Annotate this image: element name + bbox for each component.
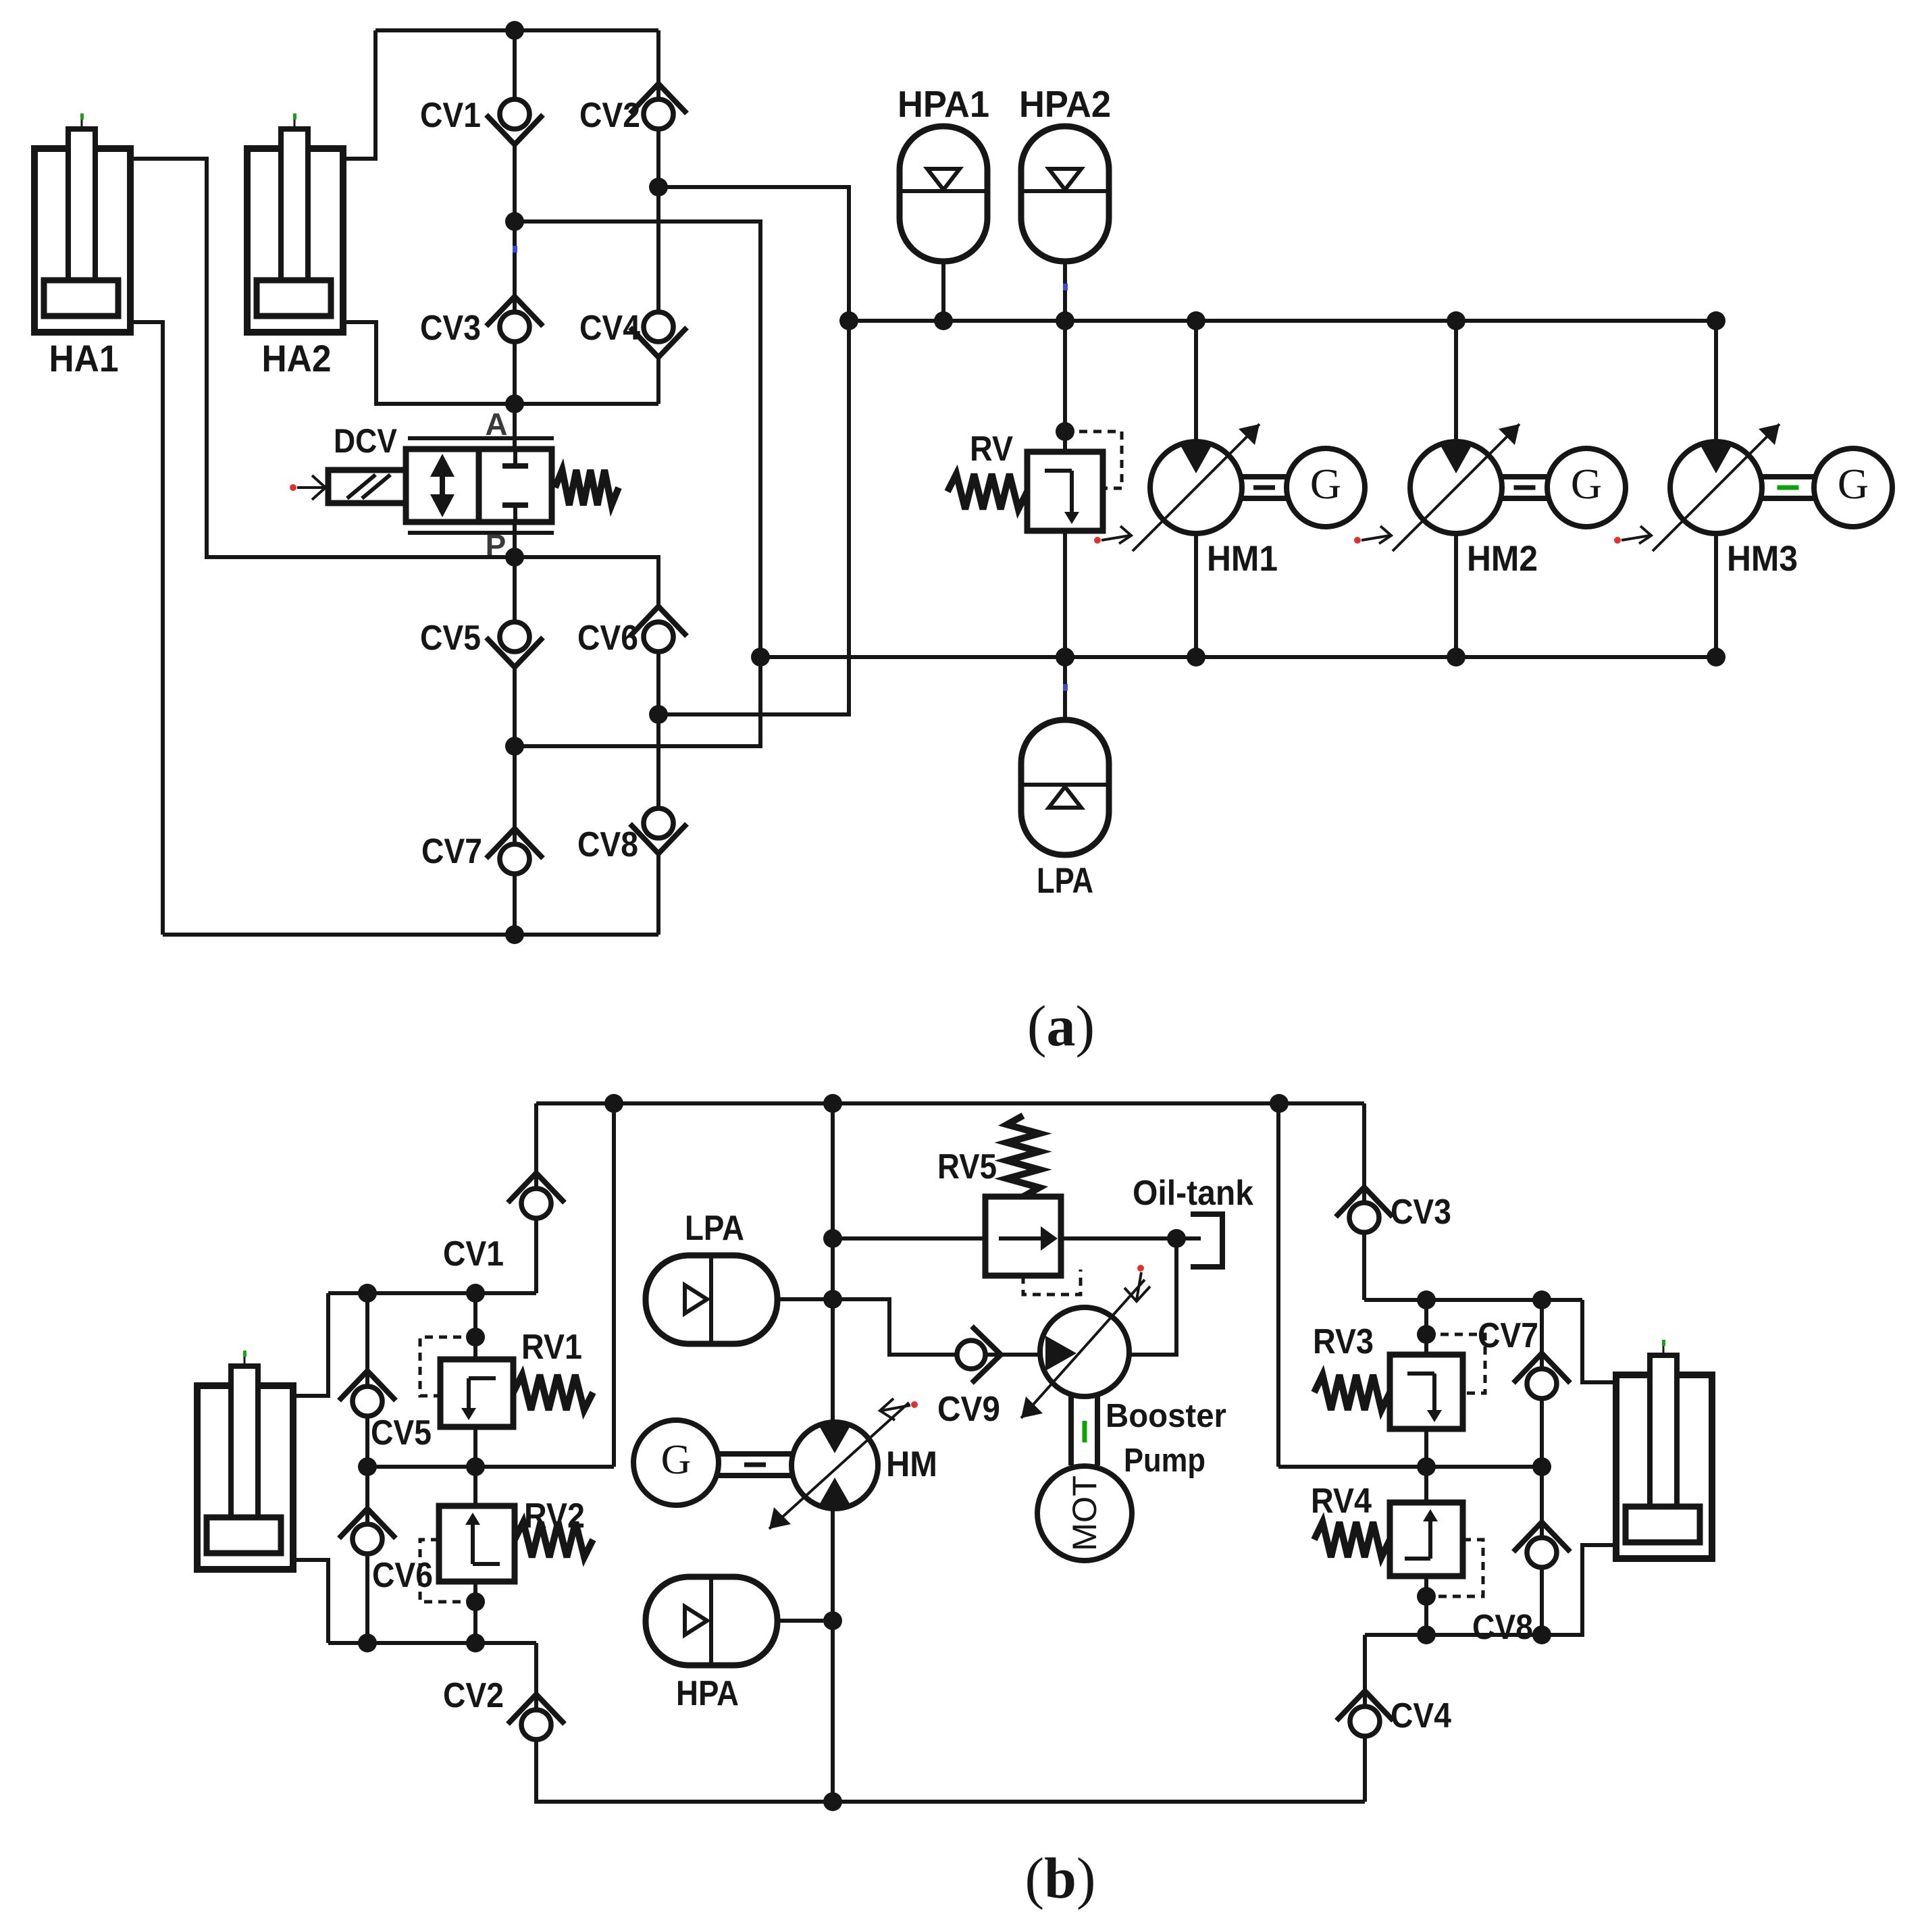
svg-text:HM: HM (886, 1444, 937, 1484)
node CV2-CV4 junction (649, 178, 668, 197)
booster pump (1040, 1307, 1129, 1396)
wire upper manifold to right cylinder top port (1582, 1300, 1616, 1382)
label CV9 (937, 1390, 1000, 1429)
svg-text:G: G (1571, 460, 1602, 508)
label LPA (a) (1037, 861, 1093, 901)
label (b) (1024, 1846, 1095, 1910)
label HPA2 (1019, 83, 1111, 125)
label CV7 (a) (421, 832, 482, 871)
wire CV2 column upper (656, 30, 660, 101)
wire LPA node to CV9 line (833, 1299, 956, 1355)
wire CV2-CV4 node to outer descender (658, 187, 849, 714)
valve DCV body right square (blocked position) (479, 449, 552, 522)
wire RV2 column upper (473, 1467, 477, 1506)
node mid manifold CV7 (1532, 1457, 1551, 1476)
node RV3 pilot tap (1417, 1325, 1436, 1344)
svg-text:CV1: CV1 (420, 96, 481, 135)
node A (505, 394, 524, 413)
svg-text:RV4: RV4 (1311, 1482, 1372, 1521)
wire RV2 to lower manifold (b) (473, 1582, 477, 1643)
label HA1 (49, 337, 119, 380)
node mid manifold RV3 (1417, 1457, 1436, 1476)
hydraulic motor HM (b) (792, 1422, 878, 1509)
svg-text:CV8: CV8 (577, 825, 638, 864)
svg-text:CV6: CV6 (372, 1556, 433, 1595)
label HM3 (1727, 539, 1798, 579)
wire CV8 to bottom bus corner (656, 853, 660, 935)
label CV6 (b) (372, 1556, 433, 1595)
wire HPA node to bottom bus (831, 1621, 835, 1802)
wire lower manifold (b) (328, 1641, 536, 1645)
check valve CV7 (b) (1513, 1353, 1570, 1399)
wire booster pump to tank node (1129, 1238, 1176, 1355)
label (a) (1027, 993, 1095, 1058)
electric motor MOT (1037, 1466, 1132, 1561)
label G3 (1838, 460, 1869, 508)
label Pump (1124, 1442, 1205, 1479)
check valve CV2 (630, 84, 687, 129)
wire CV4 to A-line corner (656, 357, 660, 404)
wire HM3 column lower (1714, 533, 1718, 657)
wire CV2 to CV4 (656, 129, 660, 314)
wire RV4 to lower manifold (b right) (1424, 1576, 1428, 1635)
svg-text:Pump: Pump (1124, 1442, 1205, 1479)
wire upper manifold (b) (328, 1291, 536, 1295)
wire bottom bus (a) (163, 933, 658, 937)
wire mid manifold left (b) (367, 1465, 614, 1469)
wire HM3 column upper (1714, 321, 1718, 442)
label LPA (b) (685, 1209, 744, 1248)
wire HM1 column lower (1194, 533, 1198, 657)
svg-text:CV8: CV8 (1472, 1608, 1533, 1647)
wire HM2 column lower (1454, 533, 1458, 657)
wire A line from node to CV4 corner (515, 402, 658, 406)
node RV column at return bus (1056, 648, 1074, 667)
node P (505, 548, 524, 567)
node RV2 pilot lower tap (466, 1592, 485, 1611)
svg-text:CV2: CV2 (579, 96, 640, 135)
wire upper manifold right (b) (1364, 1298, 1582, 1302)
check valve CV6 (b) (339, 1509, 396, 1554)
wire left riser (b) (612, 1103, 616, 1467)
check valve CV4 (630, 312, 687, 357)
label CV7 (b) (1478, 1316, 1538, 1355)
wire CV8 to lower manifold (b) (1540, 1567, 1544, 1635)
wire top bus to CV1 (b) (534, 1103, 538, 1189)
RV5 pilot dashed line (1023, 1270, 1081, 1295)
svg-text:CV4: CV4 (1391, 1696, 1451, 1735)
generator G (b) (633, 1420, 719, 1505)
node upper manifold CV7 (1532, 1290, 1551, 1309)
wire CV7 to bottom bus (513, 874, 517, 935)
label Oil-tank (1133, 1174, 1253, 1213)
HM1 control mini arrow (1094, 526, 1131, 544)
wire CV4 to bottom bus (b) (1363, 1736, 1367, 1802)
node top bus right riser (1270, 1094, 1289, 1113)
wire lower manifold to CV4 (b) (1363, 1635, 1367, 1707)
shaft HM2-G (1502, 477, 1547, 498)
label RV2 (524, 1496, 585, 1536)
svg-text:RV: RV (970, 429, 1013, 469)
label HA2 (262, 337, 332, 380)
wire RV4 column upper (1424, 1467, 1428, 1503)
svg-text:CV5: CV5 (420, 619, 481, 658)
HM3 variable displacement arrow (1653, 424, 1780, 551)
DCV top rail (408, 436, 554, 440)
svg-text:HPA: HPA (676, 1674, 739, 1713)
label P port (486, 528, 507, 563)
svg-text:CV2: CV2 (443, 1676, 504, 1715)
HM (b) control mini arrow (880, 1399, 918, 1420)
wire RV1 to mid manifold (b) (473, 1427, 477, 1467)
label CV3 (420, 309, 481, 348)
blue mark HPA2 stem (1063, 284, 1068, 290)
relief valve RV (1027, 452, 1103, 531)
wire CV9 to booster pump (986, 1353, 1040, 1357)
check valve CV7 (486, 829, 543, 874)
relief valve RV2 (439, 1506, 515, 1582)
HM2 variable displacement arrow (1393, 424, 1520, 551)
label CV5 (b) (371, 1413, 432, 1453)
label RV4 (1311, 1482, 1372, 1521)
cylinder HA2 (247, 113, 343, 332)
svg-text:RV5: RV5 (937, 1147, 997, 1186)
hydraulic motor HM2 (1410, 442, 1502, 533)
accumulator LPA (b) (646, 1255, 833, 1344)
wire upper manifold to cylinder top port (295, 1293, 328, 1396)
blue mark CV ladder (513, 246, 517, 253)
svg-text:G: G (661, 1437, 692, 1483)
node upper manifold RV1 (466, 1284, 485, 1303)
wire CV6 column (b) (365, 1467, 369, 1525)
node HPA2 stem (1056, 311, 1074, 330)
label A port (485, 407, 507, 442)
RV3 spring (1314, 1375, 1390, 1410)
RV spring (948, 474, 1027, 509)
wire HA1 upper outlet to P node (130, 159, 515, 557)
wire HA2 upper outlet to top bus (343, 30, 375, 159)
wire HM2 column upper (1454, 321, 1458, 442)
node HM3 supply (1707, 311, 1726, 330)
svg-text:CV7: CV7 (1478, 1316, 1538, 1355)
wire HA1 lower outlet to bottom bus (130, 322, 163, 935)
check valve CV3 (486, 296, 543, 342)
wire DCV to P node (513, 522, 517, 557)
check valve CV3 (b) (1336, 1187, 1393, 1232)
HM (b) variable displacement arrow (769, 1403, 909, 1529)
node top bus center column (823, 1094, 842, 1113)
wire CV1 column upper (513, 30, 517, 101)
relief valve RV3 (1390, 1355, 1463, 1429)
svg-text:G: G (1310, 460, 1341, 508)
label HPA (b) (676, 1674, 739, 1713)
wire CV1 to upper manifold (b) (534, 1218, 538, 1293)
RV2 pilot dashed line (420, 1540, 475, 1602)
valve DCV body left square (arrows position) (406, 449, 479, 522)
wire return bus (a) (760, 655, 1716, 659)
check valve CV2 (b) (508, 1694, 565, 1740)
wire A node to DCV (513, 404, 517, 450)
wire CV5 to mid manifold (b) (365, 1416, 369, 1467)
node CV6-CV8 junction (649, 705, 668, 724)
wire RV3 column upper (1424, 1300, 1428, 1355)
label G2 (1571, 460, 1602, 508)
cylinder HA1 (34, 113, 130, 332)
node HM2 return (1447, 648, 1465, 667)
wire P node to CV5 (513, 557, 517, 623)
node upper manifold RV3 (1417, 1290, 1436, 1309)
node HM3 return (1707, 648, 1726, 667)
node mid manifold RV2 (466, 1457, 485, 1476)
generator G of HM3 (1814, 448, 1892, 527)
shaft G-HM (b) (719, 1454, 792, 1476)
accumulator LPA (a) (1021, 720, 1109, 855)
node HM2 supply (1447, 311, 1465, 330)
DCV bottom rail (408, 531, 554, 535)
label Booster (1106, 1398, 1226, 1434)
wire CV6 to mid node (656, 652, 660, 714)
wire CV7 column (b) (1540, 1300, 1544, 1369)
oil tank symbol (1191, 1214, 1222, 1267)
wire CV5 column (b) (365, 1293, 369, 1387)
wire node to CV3 (513, 221, 517, 314)
label CV2 (579, 96, 640, 135)
wire right riser (b) (1276, 1103, 1280, 1467)
label HM (b) (886, 1444, 937, 1484)
node lower manifold CV8 (1532, 1625, 1551, 1644)
check valve CV1 (b) (508, 1173, 565, 1218)
check valve CV5 (b) (339, 1371, 396, 1416)
node oil tank line (1167, 1229, 1186, 1248)
wire lower manifold to CV2 (b) (534, 1643, 538, 1711)
label CV4 (579, 309, 640, 348)
wire CV8 column (b) (1540, 1467, 1544, 1538)
svg-text:Oil-tank: Oil-tank (1133, 1174, 1253, 1213)
DCV return spring (555, 470, 619, 505)
label G1 (1310, 460, 1341, 508)
check valve CV9 (957, 1326, 1001, 1383)
RV4 pilot dashed line (1426, 1540, 1483, 1596)
wire center column (b) (831, 1103, 835, 1422)
label CV8 (b) (1472, 1608, 1533, 1647)
label CV5 (a) (420, 619, 481, 658)
check valve CV6 (630, 606, 687, 652)
hydraulic motor HM3 (1670, 442, 1762, 533)
svg-text:RV2: RV2 (524, 1496, 585, 1536)
svg-text:CV3: CV3 (420, 309, 481, 348)
wire CV3 to upper manifold (b right) (1362, 1232, 1366, 1300)
svg-text:CV9: CV9 (937, 1390, 1000, 1429)
HM1 variable displacement arrow (1133, 424, 1260, 551)
wire CV2 to bottom bus (b) (536, 1740, 1365, 1802)
svg-text:G: G (1838, 460, 1869, 508)
node RV5 line tap (823, 1229, 842, 1248)
wire CV1-CV3 node to descender (515, 221, 760, 746)
node descender / return bus tap (751, 648, 770, 667)
shaft HM3-G (1762, 477, 1814, 498)
DCV actuation arrow (290, 475, 326, 500)
svg-text:HM3: HM3 (1727, 539, 1798, 579)
shaft booster pump to MOT (1071, 1396, 1097, 1465)
label RV (970, 429, 1013, 469)
DCV solenoid box (328, 470, 406, 503)
label RV1 (521, 1328, 582, 1367)
label CV1 (b) (443, 1234, 504, 1274)
svg-text:LPA: LPA (1037, 861, 1093, 901)
generator G of HM1 (1287, 448, 1365, 527)
wire RV column lower (1063, 531, 1067, 657)
DCV right square blocked port top (502, 449, 528, 466)
wire CV6 to lower manifold (b) (365, 1554, 369, 1643)
node HPA1 stem (934, 311, 953, 330)
wire CV5 to mid node (513, 667, 517, 746)
node lower manifold RV2 (466, 1634, 485, 1652)
svg-text:HA1: HA1 (49, 337, 119, 380)
node RV1 pilot tap (466, 1328, 485, 1347)
svg-text:HM1: HM1 (1207, 539, 1278, 579)
svg-text:HPA1: HPA1 (898, 83, 989, 125)
svg-text:CV5: CV5 (371, 1413, 432, 1453)
node lower manifold RV4 (1417, 1625, 1436, 1644)
wire top bus (b) (536, 1101, 1364, 1105)
wire RV3 to mid manifold (b right) (1424, 1429, 1428, 1467)
node HPA stem (b) (823, 1611, 842, 1630)
node mid manifold CV6 (358, 1457, 377, 1476)
node bottom bus center column (823, 1792, 842, 1811)
svg-text:Booster: Booster (1106, 1398, 1226, 1434)
svg-text:LPA: LPA (685, 1209, 744, 1248)
node outer descender / supply bus tap (839, 311, 858, 330)
booster pump control arrow (1124, 1265, 1150, 1301)
svg-text:HA2: HA2 (262, 337, 332, 380)
HM2 control mini arrow (1354, 526, 1391, 544)
wire lower manifold to right cylinder bottom port (1542, 1545, 1616, 1635)
label CV8 (a) (577, 825, 638, 864)
check valve CV5 (486, 622, 543, 667)
label HM2 (1467, 539, 1538, 579)
svg-text:(b): (b) (1024, 1846, 1095, 1910)
RV4 spring (1314, 1522, 1390, 1557)
accumulator HPA1 (900, 126, 987, 321)
accumulator HPA (b) (646, 1577, 833, 1665)
svg-text:RV3: RV3 (1313, 1322, 1374, 1361)
label CV6 (a) (577, 619, 638, 658)
label MOT (1066, 1476, 1104, 1551)
label G (b) (661, 1437, 692, 1483)
wire RV1 column upper (473, 1293, 477, 1359)
label CV1 (420, 96, 481, 135)
check valve CV1 (486, 99, 543, 145)
wire top bus (a) (375, 28, 658, 32)
blue mark LPA stem (1063, 684, 1068, 691)
DCV right square blocked port bottom (502, 505, 528, 522)
wire HM1 column upper (1194, 321, 1198, 442)
svg-text:CV1: CV1 (443, 1234, 504, 1274)
label RV3 (1313, 1322, 1374, 1361)
RV5 spring (1007, 1116, 1039, 1197)
wire RV5 to oil tank (1061, 1236, 1201, 1241)
check valve CV8 (b) (1513, 1522, 1570, 1567)
svg-text:CV6: CV6 (577, 619, 638, 658)
svg-text:HPA2: HPA2 (1019, 83, 1111, 125)
svg-text:RV1: RV1 (521, 1328, 582, 1367)
cylinder left (b) (197, 1351, 293, 1569)
relief valve RV5 (985, 1197, 1061, 1276)
node LPA stem (b) (823, 1290, 842, 1309)
label CV2 (b) (443, 1676, 504, 1715)
svg-text:CV3: CV3 (1391, 1193, 1451, 1232)
wire RV column upper (1063, 321, 1067, 452)
wire HA2 lower outlet to A line (343, 322, 515, 404)
DCV solenoid slashes (347, 475, 390, 498)
node CV5-CV7 junction (505, 737, 524, 756)
relief valve RV4 (1390, 1503, 1463, 1576)
wire P node to CV6 column (515, 557, 658, 608)
label DCV (334, 422, 398, 460)
HM3 control mini arrow (1614, 526, 1651, 544)
wire HM to HPA node (831, 1509, 835, 1621)
svg-text:MOT: MOT (1066, 1476, 1104, 1551)
wire CV1 to node (513, 144, 517, 221)
node RV pilot tap (1056, 422, 1074, 441)
RV1 pilot dashed line (420, 1337, 475, 1396)
wire top bus to CV3 (b) (1362, 1103, 1366, 1203)
hydraulic motor HM1 (1150, 442, 1242, 533)
wire lower manifold right (b) (1365, 1633, 1542, 1637)
svg-text:HM2: HM2 (1467, 539, 1538, 579)
relief valve RV1 (440, 1359, 513, 1427)
label CV3 (b) (1391, 1193, 1451, 1232)
generator G of HM2 (1547, 448, 1626, 527)
wire mid node to CV8 (656, 714, 660, 809)
node lower manifold CV6 (358, 1634, 377, 1652)
label HPA1 (898, 83, 989, 125)
RV3 pilot dashed line (1426, 1334, 1485, 1393)
node top bus left riser (604, 1094, 623, 1113)
wire RV5 feed line (833, 1236, 985, 1241)
wire LPA stem (1063, 657, 1067, 720)
label CV4 (b) (1391, 1696, 1451, 1735)
label HM1 (1207, 539, 1278, 579)
accumulator HPA2 (1021, 126, 1109, 321)
node HM1 supply (1187, 311, 1205, 330)
check valve CV8 (630, 808, 687, 854)
shaft HM1-G (1242, 477, 1287, 498)
node CV1-CV3 junction (505, 212, 524, 231)
DCV left square flow arrows (430, 454, 455, 517)
wire mid node to CV7 (513, 746, 517, 845)
label RV5 (937, 1147, 997, 1186)
booster pump diagonal arrow (1021, 1280, 1145, 1418)
node bottom bus / CV7 column (505, 925, 524, 944)
wire cylinder bottom port to lower manifold (295, 1560, 328, 1643)
svg-text:(a): (a) (1027, 993, 1095, 1058)
node upper manifold CV5 (358, 1284, 377, 1303)
check valve CV4 (b) (1337, 1691, 1393, 1736)
RV2 spring (515, 1522, 593, 1557)
RV pilot dashed line (1065, 432, 1122, 488)
RV1 spring (513, 1375, 593, 1410)
node top bus / CV1 column (505, 21, 524, 40)
cylinder right (b) (1616, 1340, 1712, 1559)
svg-text:DCV: DCV (334, 422, 398, 460)
wire CV7 to mid manifold (b) (1540, 1399, 1544, 1467)
wire supply bus (a) (849, 319, 1716, 323)
svg-text:CV4: CV4 (579, 309, 640, 348)
svg-text:CV7: CV7 (421, 832, 482, 871)
node RV4 pilot lower tap (1417, 1587, 1436, 1606)
node HM1 return (1187, 648, 1205, 667)
